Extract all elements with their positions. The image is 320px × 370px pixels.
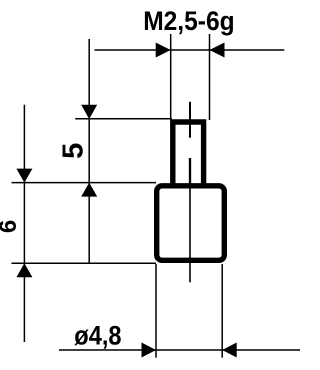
svg-text:M2,5-6g: M2,5-6g bbox=[143, 7, 234, 36]
svg-text:6: 6 bbox=[0, 220, 22, 233]
svg-text:5: 5 bbox=[58, 143, 90, 159]
svg-text:ø4,8: ø4,8 bbox=[74, 321, 121, 351]
